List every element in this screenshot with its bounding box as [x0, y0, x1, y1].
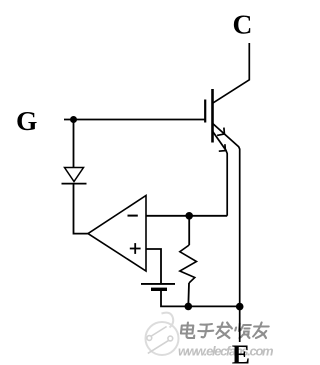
- wire gate horizontal: [64, 119, 205, 121]
- svg-text:www.elecfans.com: www.elecfans.com: [178, 344, 274, 359]
- junction rail-resistor node: [185, 303, 193, 311]
- wire inverting input to sense-emitter corner: [146, 215, 227, 217]
- junction rail-emitter node: [236, 303, 244, 311]
- svg-text:E: E: [232, 338, 250, 365]
- junction gate node: [70, 116, 77, 123]
- transistor Q1 main emitter lead: [213, 124, 240, 343]
- diode D1: [62, 168, 87, 184]
- wire non-inverting input to battery: [146, 249, 161, 284]
- battery B1: [141, 284, 175, 289]
- op-amp U1: [88, 196, 146, 272]
- transistor Q1 gate bar: [204, 100, 206, 123]
- transistor Q1 sense emitter lead: [213, 132, 228, 216]
- transistor Q1 collector lead: [213, 43, 249, 103]
- wire gate node to diode anode: [73, 120, 75, 168]
- resistor R1: [180, 216, 197, 307]
- transistor Q1 sense emitter arrow: [219, 144, 226, 151]
- transistor Q1 body bar: [211, 89, 214, 143]
- transistor Q1 main emitter arrow: [217, 128, 224, 136]
- junction sense node: [185, 212, 193, 220]
- wire diode cathode to op-amp output: [74, 184, 89, 234]
- wire battery negative to bottom rail: [161, 291, 240, 306]
- svg-text:G: G: [16, 105, 37, 136]
- watermark: [146, 313, 275, 359]
- svg-text:C: C: [233, 9, 253, 40]
